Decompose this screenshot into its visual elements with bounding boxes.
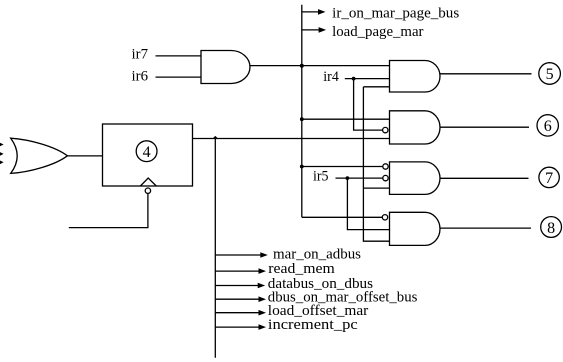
wire ir5 to gate7: [336, 177, 383, 179]
register box 4: [103, 124, 193, 186]
wire bus to gate6: [302, 118, 390, 120]
bubble gate6: [383, 127, 388, 132]
svg-text:8: 8: [547, 220, 555, 237]
input arrowhead a2: [0, 152, 4, 156]
bubble gate8: [382, 215, 387, 220]
junction dot J3: [352, 77, 356, 81]
and-gate U6 (8): [390, 212, 440, 245]
wire bus to gate8 bubble: [302, 216, 383, 218]
wire ir6: [156, 76, 202, 78]
input arrowhead a1: [0, 143, 4, 147]
wire gate7 output: [440, 177, 529, 179]
wire net3 vertical: [363, 87, 389, 241]
wire read_mem: [215, 270, 259, 272]
junction dot J5: [300, 165, 304, 169]
and-gate U5 (7): [390, 162, 441, 195]
wire ir_on_mar_page_bus: [302, 11, 319, 13]
wire gate7 third input: [363, 187, 389, 189]
or-gate U1: [11, 138, 68, 173]
svg-text:ir4: ir4: [323, 69, 339, 85]
junction dot J2: [300, 64, 304, 68]
wire load_page_mar: [302, 29, 319, 31]
wire and output to gate5: [250, 65, 390, 67]
wire bus to gate7 bubble: [302, 166, 383, 168]
wire ir7: [156, 55, 202, 57]
svg-text:7: 7: [545, 170, 553, 187]
and-gate U3 (5): [390, 61, 441, 93]
svg-text:read_mem: read_mem: [268, 261, 335, 277]
circle label 4: [136, 141, 157, 162]
svg-text:load_page_mar: load_page_mar: [332, 24, 424, 40]
svg-text:6: 6: [544, 118, 552, 135]
wire or-output: [67, 155, 102, 157]
wire databus_on_dbus: [215, 285, 258, 287]
wire control bus vertical: [214, 139, 216, 358]
svg-text:ir6: ir6: [132, 69, 149, 85]
svg-text:4: 4: [143, 144, 151, 161]
wire box output to gate6: [193, 138, 390, 140]
wire clock: [69, 193, 148, 227]
wire load_offset_mar: [215, 312, 259, 314]
wire gate6 output: [440, 126, 529, 128]
clock bubble: [145, 188, 150, 193]
clock triangle: [140, 178, 156, 186]
wire ir4 to gate5: [345, 78, 390, 80]
wire mar_on_adbus: [215, 254, 260, 256]
and-gate U2 top: [201, 51, 250, 84]
wire gate5 third input: [363, 86, 389, 88]
bubble gate7 input1: [383, 164, 388, 169]
output circle 5: [539, 63, 561, 85]
svg-text:ir_on_mar_page_bus: ir_on_mar_page_bus: [332, 6, 459, 22]
output circle 7: [539, 167, 559, 187]
junction dot J6: [346, 176, 350, 180]
wire gate8 output: [440, 227, 531, 229]
output circle 8: [541, 217, 562, 238]
state bus vertical: [301, 5, 303, 218]
and-gate U4 (6): [390, 111, 441, 144]
junction dot J1: [213, 136, 218, 139]
wire increment_pc: [215, 326, 259, 328]
input arrowhead a3: [0, 161, 4, 165]
svg-text:ir7: ir7: [132, 47, 149, 63]
output circle 6: [537, 115, 558, 136]
wire gate5 output: [440, 73, 532, 75]
svg-text:ir5: ir5: [313, 169, 329, 185]
junction dot J4: [300, 117, 304, 121]
bubble gate7 input2: [383, 175, 388, 180]
svg-text:increment_pc: increment_pc: [268, 317, 358, 333]
wire ir4 inverted branch: [354, 79, 383, 131]
wire ir5 branch to gate8: [347, 178, 389, 230]
svg-text:5: 5: [546, 66, 554, 83]
wire dbus_on_mar_offset_bus: [215, 298, 259, 300]
